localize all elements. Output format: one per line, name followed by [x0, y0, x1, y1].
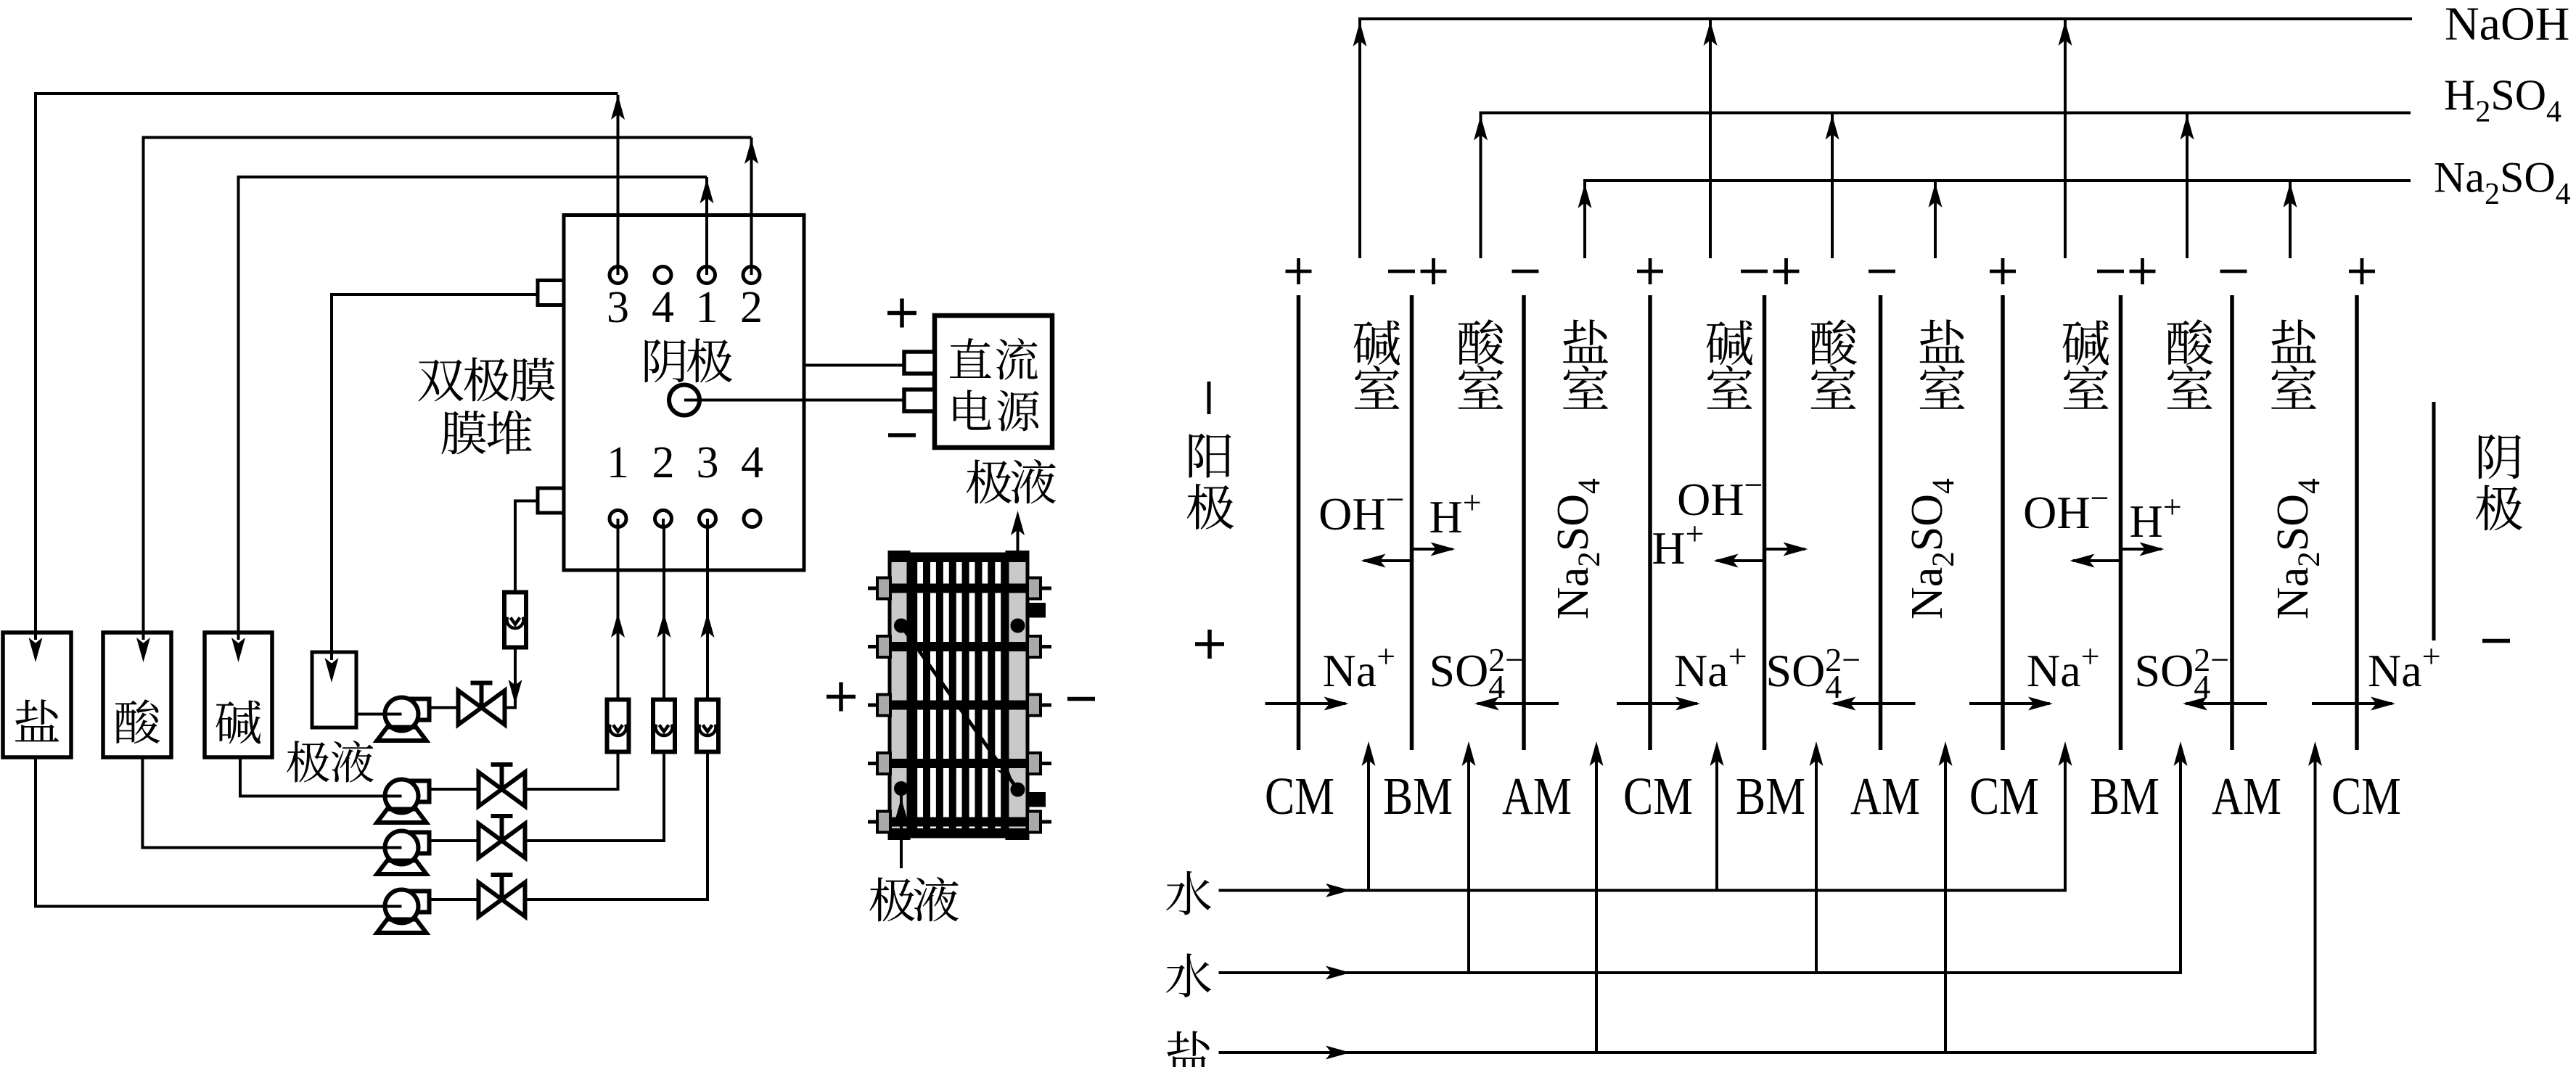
- wire: riser from port 3 with up arrow: [617, 95, 620, 267]
- product line Na2SO4: [1585, 181, 2411, 258]
- tank 酸 (acid): [103, 633, 171, 757]
- riser acid chamber to H2SO4 line: [2186, 115, 2189, 259]
- wire anode to DC source plus: [803, 364, 905, 367]
- feed line water 1 (alkali chambers): [1219, 746, 2066, 891]
- wire cathode to DC source minus: [684, 399, 904, 402]
- svg-text:BM: BM: [1736, 767, 1805, 825]
- stack electrode dots: [894, 619, 908, 633]
- svg-text:AM: AM: [2212, 767, 2281, 825]
- arrow into alkali tank: [237, 633, 240, 640]
- side port upper: [538, 281, 564, 305]
- OH- arrow left: [1364, 559, 1412, 562]
- flow meter R3 (salt): [697, 700, 718, 752]
- label 极液: [287, 741, 329, 782]
- pump D (salt): [411, 891, 430, 912]
- svg-text:2: 2: [652, 438, 675, 487]
- label 极液 (outlet): [967, 459, 1012, 503]
- plus sign left of stack: [826, 695, 856, 699]
- label 极液 (inlet): [869, 877, 914, 921]
- valve C (acid): [500, 816, 504, 841]
- riser alkali chamber to NaOH line: [2064, 20, 2067, 258]
- membrane polarity signs: [1286, 270, 1312, 273]
- svg-text:BM: BM: [2090, 767, 2159, 825]
- flow meter R1 (alkali): [607, 700, 629, 752]
- wire: acid tank to pump C and bottom port 2: [142, 757, 385, 848]
- svg-text:1: 1: [696, 283, 718, 332]
- feed line water 2 (acid chambers): [1219, 746, 2181, 973]
- svg-text:SO: SO: [2135, 645, 2194, 696]
- svg-text:1: 1: [607, 438, 629, 487]
- svg-text:SO: SO: [1429, 645, 1489, 696]
- svg-text:3: 3: [607, 283, 629, 332]
- label 盐 (feed): [1167, 1031, 1210, 1067]
- cell stack side tabs left: [877, 578, 890, 599]
- label 双极膜膜堆: [418, 360, 463, 402]
- wire: stack top port 1 to alkali tank: [239, 177, 707, 640]
- riser acid chamber to H2SO4 line: [1831, 115, 1834, 259]
- chamber labels: [1354, 321, 1400, 366]
- label 阴极 (cathode in stack): [645, 339, 686, 382]
- anode label block: [1207, 382, 1211, 414]
- arrow into electrode liquid tank: [330, 652, 333, 660]
- label 水 2: [1166, 953, 1211, 997]
- svg-text:4: 4: [652, 283, 674, 332]
- valve A (electrode liquid): [480, 683, 484, 708]
- cell stack frame bars (grid horizontals): [890, 584, 1027, 593]
- svg-text:CM: CM: [1969, 767, 2039, 825]
- svg-text:AM: AM: [1502, 767, 1572, 825]
- wire: riser from port 1 with up arrow: [705, 177, 708, 267]
- wire: upper side port to electrode-liquid tank: [332, 294, 538, 660]
- svg-text:2: 2: [740, 283, 763, 332]
- wire: alkali tank to pump B and bottom port 1: [240, 757, 385, 796]
- membranes CM BM AM: [1297, 295, 1301, 750]
- arrow into salt tank: [34, 633, 37, 640]
- H+ arrow right: [2121, 548, 2162, 551]
- cell stack bottom bar: [890, 828, 1027, 839]
- riser alkali chamber to NaOH line: [1709, 20, 1712, 258]
- svg-text:CM: CM: [1623, 767, 1693, 825]
- cell stack top bar: [890, 553, 1027, 563]
- svg-text:AM: AM: [1850, 767, 1920, 825]
- svg-text:2−: 2−: [1488, 641, 1524, 678]
- OH- arrow left: [2073, 559, 2121, 562]
- side port lower: [538, 488, 564, 513]
- svg-text:SO: SO: [1766, 645, 1826, 696]
- plus sign at DC source: [887, 311, 916, 316]
- svg-text:CM: CM: [2331, 767, 2401, 825]
- wire: stack top port 3 to salt tank: [36, 94, 618, 640]
- minus sign right of stack: [1067, 697, 1095, 701]
- svg-text:CM: CM: [1265, 767, 1334, 825]
- top ports circles 3 4 1 2: [610, 267, 626, 284]
- product line H2SO4: [1481, 113, 2411, 259]
- riser salt chamber to Na2SO4 line: [2289, 182, 2292, 258]
- svg-text:2−: 2−: [2194, 641, 2229, 678]
- DC terminal lower: [904, 390, 935, 411]
- cathode terminal circle: [669, 385, 700, 416]
- product line NaOH: [1360, 19, 2412, 258]
- arrow into acid tank: [142, 633, 145, 640]
- DC power supply 直流电源: [935, 316, 1052, 448]
- OH- arrow left: [1717, 559, 1765, 562]
- svg-text:NaOH: NaOH: [2445, 0, 2569, 51]
- tank 盐 (salt): [3, 633, 71, 757]
- minus sign at DC source: [888, 433, 916, 437]
- svg-text:3: 3: [697, 438, 719, 487]
- label 水 1: [1166, 871, 1211, 915]
- bottom port stubs: [617, 519, 620, 527]
- pump C (acid): [411, 833, 430, 854]
- cathode label block: [2432, 402, 2436, 640]
- H+ arrow right: [1412, 548, 1453, 551]
- wire: riser from port 2 with up arrow: [750, 138, 753, 268]
- valve D (salt): [500, 875, 504, 899]
- DC terminal upper: [904, 352, 935, 374]
- riser salt chamber to Na2SO4 line: [1934, 182, 1937, 258]
- svg-text:4: 4: [741, 438, 763, 487]
- cell stack membranes (grid verticals): [910, 562, 917, 828]
- tank 极液 (electrode liquid): [312, 652, 356, 728]
- wire: stack top port 2 to acid tank: [144, 138, 752, 640]
- H+ arrow right: [1765, 548, 1805, 551]
- valve B (alkali): [500, 765, 504, 789]
- flow meter R2 (acid): [653, 700, 675, 752]
- wire: electrode liquid tank to pump A and lower side port: [356, 713, 385, 716]
- cell stack side tabs right: [1027, 578, 1041, 599]
- cell stack terminal tabs (black): [1027, 603, 1046, 618]
- tank 碱 (alkali): [205, 633, 272, 757]
- arrow electrode liquid inlet: [900, 788, 903, 868]
- arrow electrode liquid outlet: [1017, 516, 1020, 626]
- svg-text:2−: 2−: [1825, 641, 1861, 678]
- membrane stack box 双极膜膜堆: [564, 215, 804, 571]
- wire: salt tank to pump D and bottom port 3: [36, 757, 385, 907]
- cell stack sketch: end plates: [890, 553, 908, 839]
- pump B (alkali): [411, 781, 430, 802]
- port stubs into circles: [617, 267, 620, 275]
- flow meter (electrode liquid): [504, 593, 526, 648]
- diagonal series connection: [901, 626, 1018, 790]
- svg-text:BM: BM: [1383, 767, 1453, 825]
- pump A (electrode liquid): [411, 699, 430, 720]
- Na2SO4 vertical labels in salt chambers: [1549, 478, 1607, 619]
- feed line salt (salt chambers): [1219, 746, 2315, 1052]
- bottom ports circles 1 2 3 4: [610, 511, 626, 527]
